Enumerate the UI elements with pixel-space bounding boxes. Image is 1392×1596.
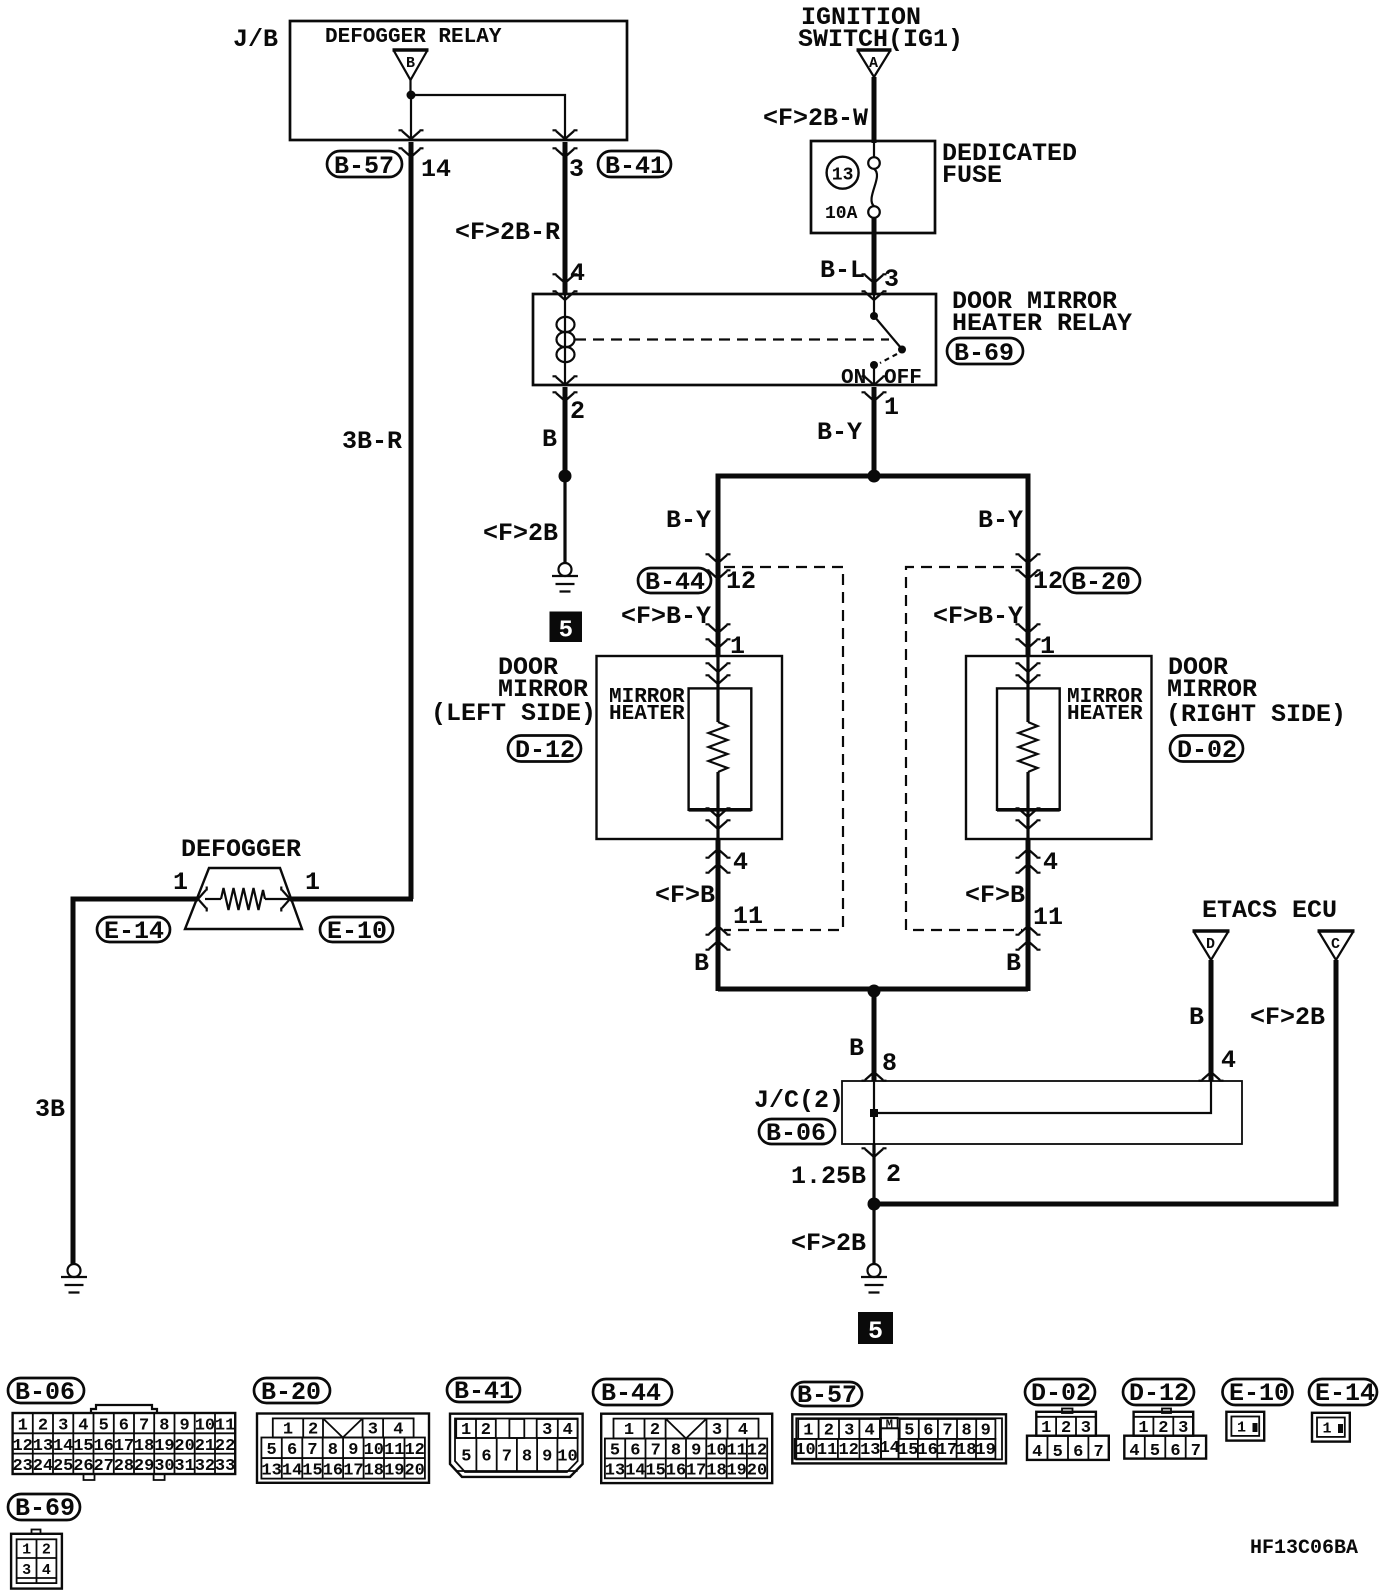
ignition switch triangle A (857, 50, 892, 77)
connector label B-69 (947, 338, 1023, 368)
svg-text:20: 20 (404, 1461, 424, 1480)
svg-text:16: 16 (917, 1441, 937, 1460)
wire relay pin 1 to B-Y bus (872, 387, 877, 476)
ground defogger (61, 1264, 87, 1293)
svg-text:B-06: B-06 (766, 1119, 826, 1148)
svg-text:10: 10 (795, 1441, 815, 1460)
wire defogger right to 3B-R (290, 897, 413, 902)
svg-text:J/B: J/B (233, 25, 278, 54)
crossing below heater right (1016, 808, 1041, 829)
svg-text:2: 2 (886, 1160, 901, 1189)
svg-text:1: 1 (1138, 1419, 1148, 1438)
connector E-10 pinout (1226, 1412, 1264, 1441)
svg-text:9: 9 (348, 1441, 358, 1460)
door boundary dashed left (724, 567, 843, 930)
svg-text:2: 2 (570, 397, 585, 426)
svg-text:5: 5 (1150, 1442, 1160, 1461)
svg-text:4: 4 (78, 1417, 88, 1436)
mirror heater inner box right (997, 688, 1060, 809)
connector B-69 pinout (11, 1530, 62, 1589)
svg-text:2: 2 (824, 1421, 834, 1440)
defogger trapezoid (185, 868, 302, 929)
svg-text:FUSE: FUSE (942, 161, 1002, 190)
svg-text:28: 28 (114, 1457, 134, 1476)
svg-text:B: B (1006, 949, 1021, 978)
B-69 pin numbers (22, 1542, 51, 1580)
connector B-20 pinout (257, 1414, 429, 1483)
svg-text:E-14: E-14 (104, 917, 164, 946)
svg-text:8: 8 (328, 1441, 338, 1460)
svg-text:15: 15 (898, 1441, 918, 1460)
connector E-14 pinout (1312, 1413, 1350, 1442)
connector label E-10 (1223, 1379, 1293, 1408)
wire junction to ground (563, 476, 566, 563)
svg-text:13: 13 (261, 1461, 281, 1480)
svg-text:HEATER RELAY: HEATER RELAY (952, 309, 1132, 338)
svg-text:5: 5 (868, 1317, 883, 1346)
svg-text:29: 29 (134, 1457, 154, 1476)
svg-text:1: 1 (1041, 1419, 1051, 1438)
defogger relay triangle B (393, 50, 429, 80)
svg-text:2: 2 (308, 1420, 318, 1439)
crossing into heater left (706, 663, 731, 684)
svg-text:B: B (406, 55, 415, 72)
svg-text:14: 14 (880, 1439, 900, 1458)
svg-text:33: 33 (215, 1457, 235, 1476)
svg-text:3: 3 (58, 1417, 68, 1436)
connector crossing B-44 pin 12 (706, 554, 731, 579)
door mirror right box (966, 656, 1152, 839)
svg-text:5: 5 (559, 618, 573, 645)
svg-text:2: 2 (42, 1542, 51, 1559)
svg-text:3: 3 (569, 155, 584, 184)
ground junction node (868, 1198, 881, 1211)
B bus node (868, 985, 881, 998)
svg-text:13: 13 (33, 1437, 53, 1456)
wire 3B-R from pin 14 down to defogger (409, 142, 414, 899)
svg-text:<F>2B-R: <F>2B-R (455, 218, 560, 247)
svg-text:1.25B: 1.25B (791, 1162, 866, 1191)
mirror heater label left (609, 686, 685, 726)
svg-text:3: 3 (884, 265, 899, 294)
connector label D-12 (508, 736, 581, 766)
svg-text:10A: 10A (825, 204, 858, 224)
svg-text:B-L: B-L (820, 256, 865, 285)
wire from triangle B to node (409, 80, 411, 95)
svg-text:7: 7 (502, 1448, 512, 1467)
svg-text:C: C (1331, 936, 1340, 953)
svg-text:D: D (1206, 936, 1215, 953)
wire node to pin 3 (411, 95, 565, 140)
svg-text:4: 4 (738, 1421, 748, 1440)
svg-text:B-Y: B-Y (817, 418, 862, 447)
svg-text:17: 17 (937, 1441, 957, 1460)
svg-text:1: 1 (624, 1421, 634, 1440)
svg-text:2: 2 (1061, 1419, 1071, 1438)
ground G5 bottom (861, 1264, 887, 1293)
mirror heater element left (709, 656, 728, 839)
svg-text:9: 9 (542, 1448, 552, 1467)
connector label B-06 (8, 1378, 84, 1407)
svg-text:4: 4 (864, 1421, 874, 1440)
svg-text:B: B (1189, 1003, 1204, 1032)
svg-text:12: 12 (747, 1441, 767, 1460)
svg-text:B-69: B-69 (15, 1494, 75, 1523)
svg-text:11: 11 (384, 1441, 404, 1460)
svg-text:8: 8 (522, 1448, 532, 1467)
connector crossing J/C pin 2 (862, 1148, 887, 1157)
svg-text:6: 6 (1170, 1442, 1180, 1461)
svg-text:17: 17 (686, 1461, 706, 1480)
connector crossing right mirror pin 1 (1016, 624, 1041, 648)
svg-text:2: 2 (481, 1421, 491, 1440)
svg-text:3: 3 (22, 1562, 31, 1579)
svg-text:E-10: E-10 (1229, 1379, 1289, 1408)
connector label B-41 (598, 151, 671, 181)
svg-text:D-12: D-12 (515, 736, 575, 765)
wire B bus to J/C pin 8 (872, 991, 877, 1081)
wire defogger left leg (73, 899, 198, 1265)
B-20 pin numbers (261, 1420, 425, 1480)
connector crossing at relay pin 4 (553, 274, 578, 300)
connector label B-41 (447, 1377, 520, 1406)
svg-text:27: 27 (93, 1457, 113, 1476)
connector B-06 pinout (13, 1405, 236, 1480)
svg-text:9: 9 (691, 1441, 701, 1460)
svg-text:B: B (542, 425, 557, 454)
connector label E-10 (320, 917, 393, 946)
svg-text:14: 14 (53, 1437, 73, 1456)
svg-text:1: 1 (1237, 1420, 1246, 1437)
connector B-57 pinout (792, 1414, 1006, 1463)
svg-text:B-69: B-69 (954, 339, 1014, 368)
svg-text:10: 10 (195, 1417, 215, 1436)
dedicated fuse box (811, 141, 935, 233)
connector B-57 crossing at pin 14 (399, 130, 424, 157)
svg-text:6: 6 (1073, 1443, 1083, 1462)
svg-text:J/C(2): J/C(2) (754, 1086, 844, 1115)
svg-text:11: 11 (726, 1441, 746, 1460)
svg-text:B-20: B-20 (1071, 568, 1131, 597)
svg-text:13: 13 (605, 1461, 625, 1480)
svg-text:30: 30 (154, 1457, 174, 1476)
svg-text:B-41: B-41 (605, 152, 665, 181)
svg-text:23: 23 (12, 1457, 32, 1476)
wire ETACS D to J/C pin 4 (1209, 960, 1214, 1081)
svg-text:E-14: E-14 (1315, 1379, 1375, 1408)
svg-text:<F>B-Y: <F>B-Y (621, 602, 711, 631)
svg-text:1: 1 (18, 1417, 28, 1436)
connector label B-57 (327, 151, 402, 181)
wire B-L fuse to relay pin 3 (872, 218, 877, 294)
relay switch (870, 294, 906, 385)
svg-text:12: 12 (12, 1437, 32, 1456)
B bus (718, 987, 1028, 992)
svg-text:11: 11 (733, 902, 763, 931)
svg-text:<F>B: <F>B (965, 881, 1025, 910)
svg-text:1: 1 (305, 868, 320, 897)
svg-text:ETACS ECU: ETACS ECU (1202, 896, 1337, 925)
svg-text:14: 14 (282, 1461, 302, 1480)
svg-text:E-10: E-10 (327, 917, 387, 946)
svg-text:21: 21 (195, 1437, 215, 1456)
svg-text:14: 14 (421, 155, 451, 184)
svg-text:<F>2B: <F>2B (1250, 1003, 1325, 1032)
svg-text:4: 4 (733, 848, 748, 877)
B-41 pin numbers (461, 1421, 578, 1467)
svg-text:14: 14 (625, 1461, 645, 1480)
svg-text:4: 4 (1043, 848, 1058, 877)
svg-text:1: 1 (283, 1420, 293, 1439)
svg-text:5: 5 (904, 1421, 914, 1440)
connector crossing at relay pin 3 (862, 274, 887, 300)
connector label D-02 (1025, 1379, 1095, 1408)
svg-text:M: M (886, 1418, 893, 1432)
svg-text:HF13C06BA: HF13C06BA (1250, 1537, 1358, 1560)
connector label B-20 (1064, 568, 1140, 597)
svg-text:3: 3 (844, 1421, 854, 1440)
svg-text:D-02: D-02 (1031, 1379, 1091, 1408)
svg-text:1: 1 (803, 1421, 813, 1440)
relay coil (557, 294, 575, 385)
ignition switch label (798, 3, 963, 54)
junction node (559, 470, 572, 483)
svg-text:22: 22 (215, 1437, 235, 1456)
svg-text:(LEFT SIDE): (LEFT SIDE) (431, 699, 596, 728)
crossing below heater left (706, 808, 731, 829)
svg-text:16: 16 (666, 1461, 686, 1480)
svg-text:DEFOGGER RELAY: DEFOGGER RELAY (325, 26, 502, 49)
ETACS triangle C (1318, 931, 1355, 960)
svg-text:5: 5 (461, 1448, 471, 1467)
door mirror left side label (431, 653, 596, 728)
svg-text:4: 4 (1032, 1443, 1042, 1462)
connector D-02 pinout (1027, 1409, 1109, 1460)
connector crossing right mirror pin 4 (1016, 849, 1041, 873)
svg-text:8: 8 (882, 1049, 897, 1078)
svg-text:10: 10 (364, 1441, 384, 1460)
svg-text:18: 18 (706, 1461, 726, 1480)
connector crossing J/C pin 4 (1199, 1072, 1224, 1081)
svg-text:6: 6 (481, 1448, 491, 1467)
ground marker 5 (550, 612, 583, 645)
svg-text:7: 7 (651, 1441, 661, 1460)
D-02 pin numbers (1032, 1419, 1104, 1462)
ground G5 left (552, 563, 578, 592)
svg-text:D-12: D-12 (1129, 1379, 1189, 1408)
J/C internal wiring (870, 1081, 1211, 1144)
svg-text:16: 16 (93, 1437, 113, 1456)
svg-text:32: 32 (195, 1457, 215, 1476)
svg-text:<F>B-Y: <F>B-Y (933, 602, 1023, 631)
svg-text:DEFOGGER: DEFOGGER (181, 835, 301, 864)
svg-text:10: 10 (706, 1441, 726, 1460)
connector crossing E-14 pin 1 (198, 887, 207, 912)
svg-text:<F>2B-W: <F>2B-W (763, 104, 868, 133)
svg-text:1: 1 (461, 1421, 471, 1440)
fuse element (868, 141, 880, 218)
svg-text:3: 3 (1081, 1419, 1091, 1438)
svg-text:26: 26 (73, 1457, 93, 1476)
svg-text:4: 4 (570, 259, 585, 288)
svg-text:18: 18 (134, 1437, 154, 1456)
J/C(2) junction connector box (842, 1081, 1242, 1144)
svg-text:3B: 3B (35, 1095, 65, 1124)
svg-text:11: 11 (1033, 903, 1063, 932)
mirror heater element right (1019, 656, 1038, 839)
svg-text:24: 24 (33, 1457, 53, 1476)
svg-text:20: 20 (174, 1437, 194, 1456)
relay dashed actuation line (575, 338, 889, 340)
svg-text:18: 18 (956, 1441, 976, 1460)
svg-text:<F>2B: <F>2B (483, 519, 558, 548)
node inside J/B (407, 91, 416, 100)
svg-text:13: 13 (860, 1441, 880, 1460)
wire J/C pin 2 to ground (872, 1144, 875, 1265)
connector crossing pin 11 left (706, 926, 731, 950)
svg-text:2: 2 (1158, 1419, 1168, 1438)
svg-text:7: 7 (942, 1421, 952, 1440)
svg-text:5: 5 (99, 1417, 109, 1436)
svg-text:5: 5 (610, 1441, 620, 1460)
connector label D-02 (1170, 736, 1243, 766)
svg-text:B: B (694, 949, 709, 978)
connector B-44 pinout (601, 1414, 772, 1483)
svg-text:6: 6 (119, 1417, 129, 1436)
wire ignition to fuse (872, 77, 877, 143)
svg-text:8: 8 (671, 1441, 681, 1460)
connector crossing E-10 pin 1 (281, 887, 290, 912)
svg-text:5: 5 (266, 1441, 276, 1460)
svg-text:8: 8 (961, 1421, 971, 1440)
connector crossing at relay pin 2 (553, 376, 578, 401)
svg-text:HEATER: HEATER (1067, 703, 1143, 726)
B-06 pin numbers (12, 1417, 235, 1477)
ground marker 5 (858, 1312, 893, 1346)
door mirror heater relay box B-69 (533, 294, 936, 385)
wire relay pin 2 to ground junction (563, 387, 568, 476)
svg-text:D-02: D-02 (1177, 736, 1237, 765)
B-57 pin numbers (795, 1418, 996, 1461)
svg-text:19: 19 (384, 1461, 404, 1480)
connector label D-12 (1123, 1379, 1194, 1408)
connector B-41 pinout (450, 1414, 583, 1477)
svg-text:B-20: B-20 (261, 1378, 321, 1407)
wire node to pin 14 (410, 95, 412, 140)
wire left mirror pin 4 to B bus (716, 839, 721, 991)
svg-text:4: 4 (42, 1562, 51, 1579)
svg-text:2: 2 (38, 1417, 48, 1436)
svg-text:3: 3 (1178, 1419, 1188, 1438)
svg-text:B: B (849, 1034, 864, 1063)
svg-text:15: 15 (73, 1437, 93, 1456)
svg-text:3: 3 (712, 1421, 722, 1440)
svg-text:B-57: B-57 (797, 1381, 857, 1410)
svg-text:9: 9 (179, 1417, 189, 1436)
svg-text:3: 3 (368, 1420, 378, 1439)
door mirror left box (597, 656, 783, 839)
door mirror heater relay label (952, 287, 1132, 338)
svg-text:OFF: OFF (884, 367, 922, 390)
svg-text:13: 13 (832, 166, 854, 186)
svg-text:11: 11 (215, 1417, 235, 1436)
svg-text:4: 4 (1221, 1046, 1236, 1075)
svg-text:12: 12 (404, 1441, 424, 1460)
connector label B-20 (254, 1378, 330, 1407)
connector label B-69 (8, 1494, 80, 1523)
crossing into heater right (1016, 663, 1041, 684)
B-Y bus node (868, 470, 881, 483)
connector crossing left mirror pin 1 (706, 624, 731, 648)
wire B-Y into right mirror (1026, 567, 1031, 656)
svg-text:7: 7 (1191, 1442, 1201, 1461)
svg-text:19: 19 (154, 1437, 174, 1456)
svg-text:6: 6 (287, 1441, 297, 1460)
D-12 pin numbers (1129, 1419, 1201, 1461)
svg-text:4: 4 (1129, 1442, 1139, 1461)
svg-text:B-44: B-44 (601, 1379, 661, 1408)
door mirror right side label (1166, 653, 1346, 729)
svg-text:8: 8 (159, 1417, 169, 1436)
J/B junction block box (233, 21, 627, 140)
svg-text:12: 12 (838, 1441, 858, 1460)
svg-text:17: 17 (343, 1461, 363, 1480)
svg-text:25: 25 (53, 1457, 73, 1476)
connector label B-44 (638, 568, 711, 597)
svg-text:12: 12 (1033, 567, 1063, 596)
defogger grid element (205, 888, 297, 910)
svg-text:20: 20 (747, 1461, 767, 1480)
svg-text:B-44: B-44 (645, 568, 705, 597)
svg-text:HEATER: HEATER (609, 703, 685, 726)
svg-text:<F>B: <F>B (655, 881, 715, 910)
svg-text:7: 7 (1093, 1443, 1103, 1462)
connector B-41 crossing at pin 3 (553, 130, 578, 157)
svg-text:16: 16 (323, 1461, 343, 1480)
svg-text:19: 19 (975, 1441, 995, 1460)
svg-text:B-Y: B-Y (666, 506, 711, 535)
svg-text:<F>2B: <F>2B (791, 1229, 866, 1258)
mirror heater label right (1067, 686, 1143, 726)
door boundary dashed right (906, 567, 1022, 930)
svg-text:18: 18 (364, 1461, 384, 1480)
svg-text:31: 31 (174, 1457, 194, 1476)
svg-text:B-Y: B-Y (978, 506, 1023, 535)
svg-text:4: 4 (393, 1420, 403, 1439)
connector crossing B-20 pin 12 (1016, 554, 1041, 579)
svg-text:11: 11 (817, 1441, 837, 1460)
svg-text:12: 12 (726, 567, 756, 596)
svg-text:1: 1 (1322, 1421, 1331, 1438)
connector label B-06 (759, 1119, 835, 1148)
wire (F)2B-R from pin 3 to relay pin 4 (563, 142, 568, 294)
svg-text:7: 7 (307, 1441, 317, 1460)
dedicated fuse label (942, 139, 1077, 190)
svg-text:1: 1 (22, 1542, 31, 1559)
svg-text:A: A (869, 55, 878, 72)
svg-text:5: 5 (1053, 1443, 1063, 1462)
mirror heater inner box left (689, 688, 752, 809)
svg-text:1: 1 (884, 393, 899, 422)
connector label B-44 (593, 1379, 672, 1408)
svg-text:6: 6 (923, 1421, 933, 1440)
svg-text:7: 7 (139, 1417, 149, 1436)
svg-text:19: 19 (726, 1461, 746, 1480)
connector crossing left mirror pin 4 (706, 849, 731, 873)
connector label E-14 (97, 917, 170, 946)
svg-text:(RIGHT SIDE): (RIGHT SIDE) (1166, 700, 1346, 729)
svg-text:1: 1 (173, 868, 188, 897)
